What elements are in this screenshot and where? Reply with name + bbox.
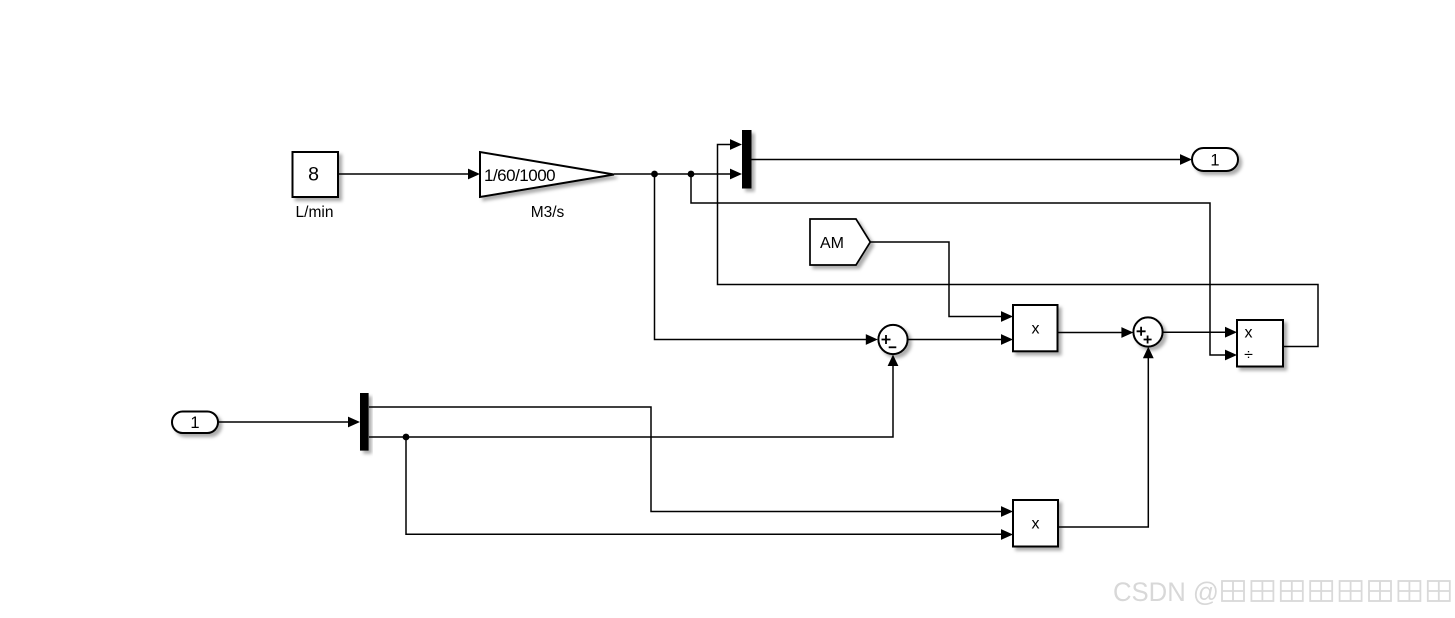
svg-text:÷: ÷ xyxy=(1244,347,1253,364)
svg-text:1: 1 xyxy=(1210,151,1219,169)
svg-text:M3/s: M3/s xyxy=(531,204,565,221)
svg-text:1/60/1000: 1/60/1000 xyxy=(484,166,555,185)
svg-text:AM: AM xyxy=(820,235,844,252)
svg-text:x: x xyxy=(1032,321,1040,338)
svg-text:1: 1 xyxy=(190,414,199,432)
svg-text:L/min: L/min xyxy=(296,204,334,221)
svg-text:x: x xyxy=(1032,516,1040,533)
svg-text:8: 8 xyxy=(308,163,319,185)
svg-text:CSDN @: CSDN @ xyxy=(1113,577,1219,607)
svg-text:x: x xyxy=(1245,325,1253,342)
